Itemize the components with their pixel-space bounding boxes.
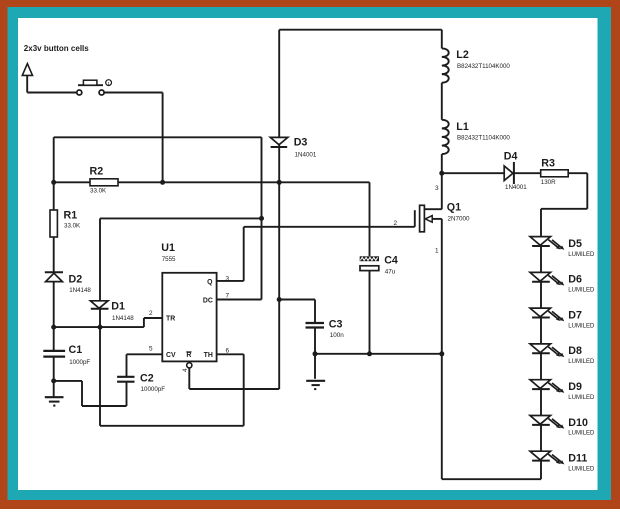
svg-text:LUMILED: LUMILED [568,395,595,401]
svg-text:D7: D7 [568,309,582,321]
svg-text:C4: C4 [384,255,398,267]
svg-text:R1: R1 [64,210,78,222]
svg-text:47u: 47u [385,268,396,275]
svg-text:1: 1 [435,248,439,255]
svg-text:R2: R2 [90,166,104,178]
svg-text:D3: D3 [294,137,308,149]
svg-text:100n: 100n [330,332,345,339]
svg-text:D4: D4 [504,151,518,163]
svg-text:LUMILED: LUMILED [568,466,595,472]
svg-text:TR: TR [166,316,175,323]
svg-text:1N4001: 1N4001 [505,184,527,191]
svg-text:5: 5 [149,345,153,352]
svg-text:7: 7 [226,293,230,300]
svg-text:2N7000: 2N7000 [448,215,471,222]
svg-text:R: R [186,352,191,359]
svg-text:TH: TH [204,352,213,359]
svg-text:7555: 7555 [162,256,176,263]
svg-text:4: 4 [182,368,189,372]
svg-text:B82432T1104K000: B82432T1104K000 [457,63,510,70]
svg-text:1N4148: 1N4148 [69,287,91,294]
svg-text:D9: D9 [568,381,582,393]
svg-text:2: 2 [393,220,397,227]
svg-text:LUMILED: LUMILED [568,323,595,329]
svg-text:3: 3 [226,275,230,282]
svg-text:D11: D11 [568,453,587,465]
svg-text:L1: L1 [456,121,469,133]
svg-text:C1: C1 [69,344,83,356]
svg-text:D2: D2 [69,273,83,285]
svg-text:130R: 130R [541,179,556,186]
svg-text:L2: L2 [456,49,469,61]
svg-text:C3: C3 [329,318,343,330]
svg-text:D10: D10 [568,417,588,429]
svg-text:1: 1 [107,81,110,86]
svg-text:1N4001: 1N4001 [295,152,317,159]
svg-text:2: 2 [149,310,153,317]
svg-text:1N4148: 1N4148 [112,315,134,322]
svg-text:Q: Q [207,279,213,286]
svg-text:2x3v button cells: 2x3v button cells [24,44,89,53]
svg-text:B82432T1104K000: B82432T1104K000 [457,135,510,142]
svg-text:LUMILED: LUMILED [568,359,595,365]
svg-text:Q1: Q1 [447,202,461,214]
svg-text:LUMILED: LUMILED [568,431,595,437]
svg-text:DC: DC [203,297,213,304]
svg-text:10000pF: 10000pF [141,386,166,393]
svg-text:C2: C2 [140,372,154,384]
svg-text:D1: D1 [111,301,125,313]
svg-text:1000pF: 1000pF [69,359,90,366]
svg-text:D6: D6 [568,274,582,286]
svg-text:U1: U1 [161,242,175,254]
svg-text:CV: CV [166,352,176,359]
svg-text:D5: D5 [568,238,582,250]
svg-text:LUMILED: LUMILED [568,252,595,258]
svg-text:6: 6 [226,347,230,354]
svg-text:33.0K: 33.0K [90,188,107,195]
svg-text:33.0K: 33.0K [64,223,81,230]
svg-text:3: 3 [435,185,439,192]
svg-text:D8: D8 [568,345,582,357]
svg-text:LUMILED: LUMILED [568,288,595,294]
svg-text:R3: R3 [541,158,555,170]
